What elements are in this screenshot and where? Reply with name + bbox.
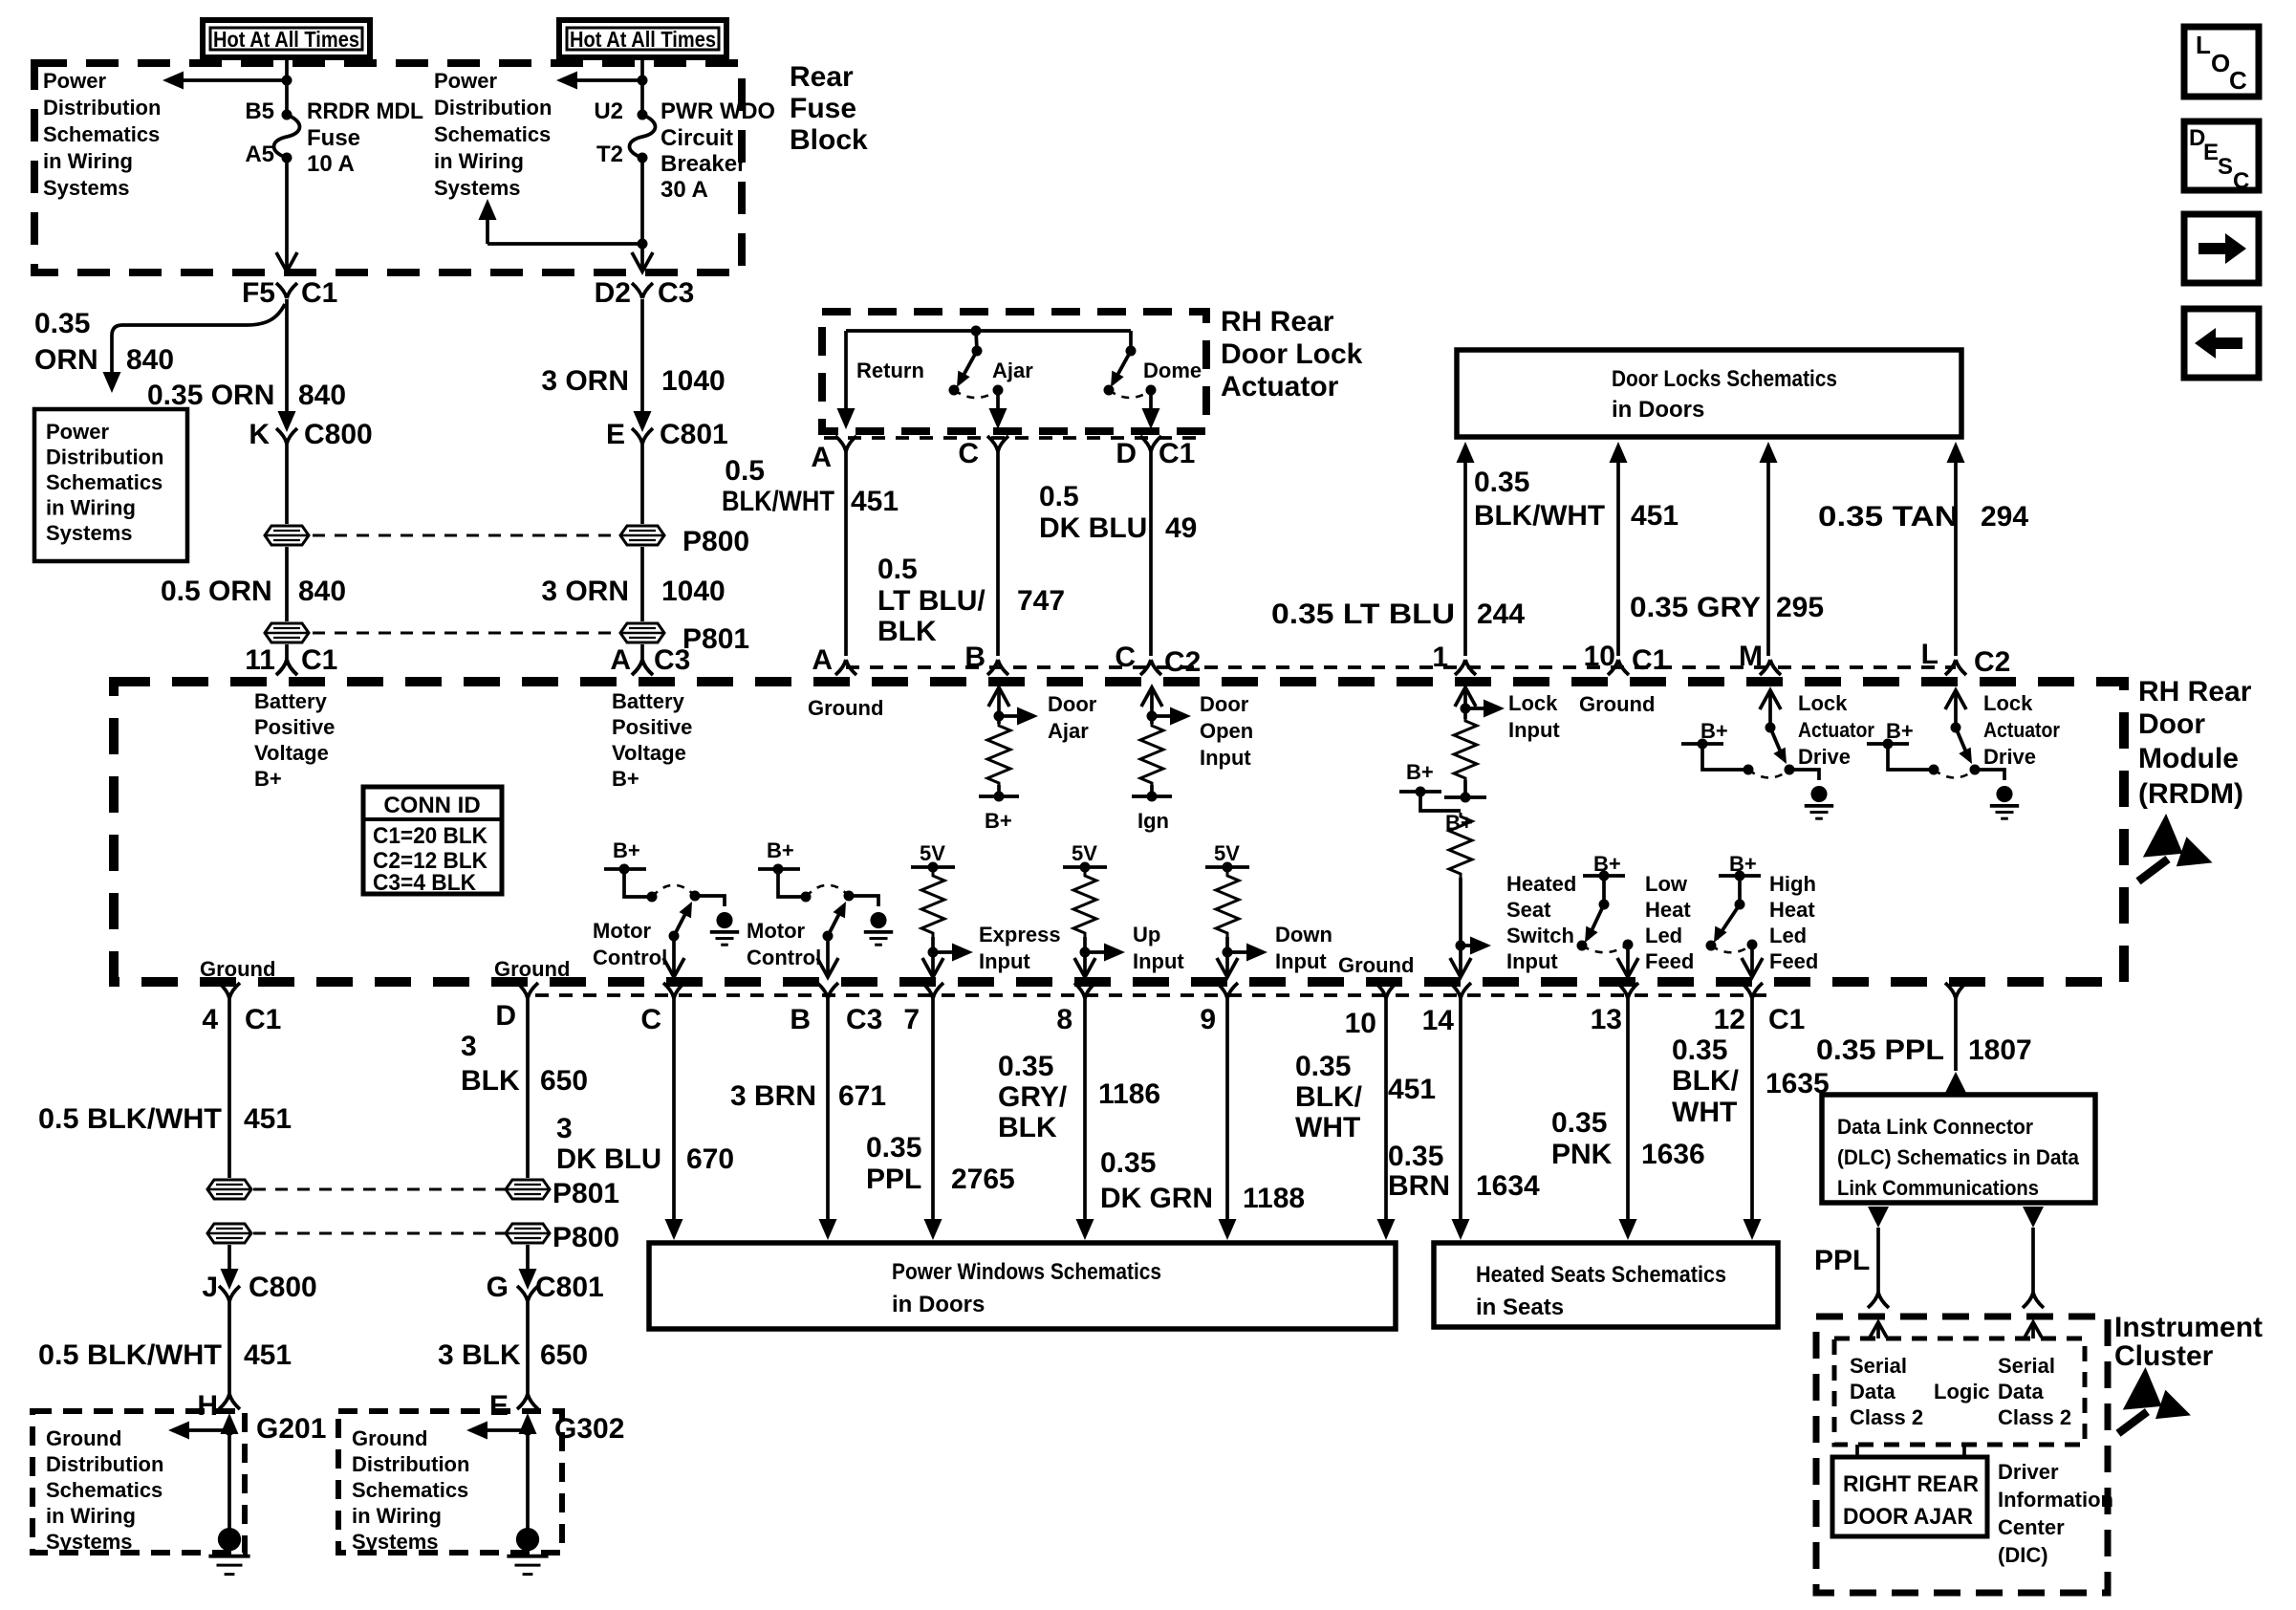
- svg-text:Systems: Systems: [434, 176, 521, 200]
- svg-text:RIGHT REAR: RIGHT REAR: [1843, 1471, 1979, 1497]
- svg-text:10: 10: [1345, 1008, 1376, 1039]
- svg-text:5V: 5V: [1214, 841, 1240, 865]
- svg-text:PPL: PPL: [866, 1164, 921, 1195]
- svg-text:Schematics: Schematics: [43, 122, 160, 146]
- svg-text:Logic: Logic: [1934, 1380, 1990, 1403]
- svg-text:10 A: 10 A: [307, 151, 355, 177]
- svg-text:Drive: Drive: [1798, 745, 1851, 769]
- svg-text:C: C: [958, 438, 979, 469]
- svg-text:in Wiring: in Wiring: [43, 149, 133, 173]
- svg-text:C1: C1: [301, 277, 337, 309]
- svg-text:Drive: Drive: [1983, 745, 2036, 769]
- svg-text:BLK: BLK: [461, 1065, 520, 1097]
- svg-text:DK BLU: DK BLU: [1039, 512, 1147, 544]
- svg-text:C1: C1: [301, 644, 337, 676]
- svg-text:Input: Input: [1133, 949, 1184, 973]
- svg-text:BLK/WHT: BLK/WHT: [722, 486, 834, 517]
- svg-text:P801: P801: [682, 623, 749, 655]
- svg-text:Input: Input: [1275, 949, 1327, 973]
- svg-text:0.35 PPL: 0.35 PPL: [1816, 1034, 1944, 1066]
- svg-text:Dome: Dome: [1143, 359, 1202, 382]
- svg-text:B+: B+: [254, 767, 282, 791]
- svg-text:0.35: 0.35: [998, 1051, 1053, 1082]
- svg-text:0.35: 0.35: [34, 308, 90, 339]
- svg-text:0.35: 0.35: [866, 1132, 921, 1164]
- svg-text:ORN: ORN: [34, 344, 98, 376]
- svg-text:1040: 1040: [661, 365, 726, 397]
- svg-text:Power: Power: [434, 69, 497, 93]
- svg-text:BLK: BLK: [877, 616, 937, 647]
- svg-text:0.35 GRY: 0.35 GRY: [1630, 592, 1761, 623]
- svg-text:Cluster: Cluster: [2114, 1340, 2214, 1372]
- svg-text:BLK/: BLK/: [1672, 1065, 1740, 1097]
- svg-text:Return: Return: [856, 359, 924, 382]
- svg-text:BRN: BRN: [1388, 1170, 1450, 1202]
- svg-text:Class 2: Class 2: [1998, 1405, 2071, 1429]
- svg-text:Door: Door: [2138, 708, 2205, 740]
- svg-text:Heat: Heat: [1769, 898, 1815, 922]
- svg-text:A: A: [811, 442, 832, 473]
- svg-text:12: 12: [1714, 1004, 1745, 1035]
- svg-text:0.35: 0.35: [1388, 1141, 1443, 1172]
- svg-text:in Doors: in Doors: [1612, 397, 1704, 423]
- svg-text:Heated: Heated: [1506, 872, 1576, 896]
- svg-text:M: M: [1739, 641, 1763, 672]
- svg-text:C800: C800: [249, 1272, 317, 1303]
- svg-text:C1: C1: [245, 1004, 281, 1035]
- svg-text:G201: G201: [256, 1413, 326, 1445]
- svg-text:RRDR MDL: RRDR MDL: [307, 98, 423, 124]
- svg-text:Positive: Positive: [254, 715, 335, 739]
- svg-text:Input: Input: [1506, 949, 1558, 973]
- svg-text:Lock: Lock: [1508, 691, 1558, 715]
- svg-text:C801: C801: [535, 1272, 604, 1303]
- svg-text:C3: C3: [654, 644, 690, 676]
- svg-text:0.5 BLK/WHT: 0.5 BLK/WHT: [38, 1103, 222, 1135]
- svg-text:Door Locks Schematics: Door Locks Schematics: [1612, 366, 1837, 392]
- svg-text:Schematics: Schematics: [352, 1478, 468, 1502]
- svg-text:D: D: [1116, 438, 1137, 469]
- svg-text:C1=20 BLK: C1=20 BLK: [373, 823, 488, 849]
- svg-text:3: 3: [556, 1113, 573, 1144]
- svg-text:H: H: [197, 1390, 218, 1422]
- svg-text:Power: Power: [43, 69, 106, 93]
- svg-text:0.5: 0.5: [877, 554, 918, 585]
- svg-text:Ground: Ground: [808, 696, 883, 720]
- svg-text:(DLC) Schematics in Data: (DLC) Schematics in Data: [1837, 1145, 2080, 1169]
- svg-text:Schematics: Schematics: [46, 470, 162, 494]
- svg-text:G302: G302: [554, 1413, 624, 1445]
- svg-text:Circuit: Circuit: [661, 125, 733, 151]
- svg-text:DK GRN: DK GRN: [1100, 1183, 1213, 1214]
- svg-text:Block: Block: [790, 124, 868, 156]
- svg-text:Module: Module: [2138, 743, 2239, 774]
- svg-text:451: 451: [851, 486, 899, 517]
- svg-text:Door: Door: [1200, 692, 1249, 716]
- svg-text:244: 244: [1477, 598, 1525, 630]
- svg-text:451: 451: [1388, 1074, 1436, 1105]
- svg-text:Ground: Ground: [46, 1426, 121, 1450]
- svg-text:Lock: Lock: [1798, 691, 1848, 715]
- svg-text:B+: B+: [613, 838, 640, 862]
- svg-text:1807: 1807: [1968, 1034, 2032, 1066]
- svg-text:WHT: WHT: [1672, 1097, 1737, 1128]
- svg-text:GRY/: GRY/: [998, 1081, 1068, 1113]
- svg-text:Motor: Motor: [593, 919, 652, 943]
- svg-text:0.35: 0.35: [1295, 1051, 1351, 1082]
- svg-text:Seat: Seat: [1506, 898, 1551, 922]
- svg-text:Ign: Ign: [1137, 809, 1169, 833]
- svg-text:3 ORN: 3 ORN: [541, 365, 629, 397]
- svg-text:Systems: Systems: [46, 521, 133, 545]
- svg-text:A: A: [812, 644, 833, 676]
- svg-text:Voltage: Voltage: [254, 741, 329, 765]
- svg-text:P800: P800: [552, 1222, 619, 1253]
- svg-text:DK BLU: DK BLU: [556, 1143, 661, 1175]
- svg-text:in Doors: in Doors: [892, 1292, 985, 1317]
- svg-text:Lock: Lock: [1983, 691, 2033, 715]
- svg-text:D: D: [495, 1000, 516, 1032]
- svg-text:0.35 LT BLU: 0.35 LT BLU: [1271, 598, 1455, 630]
- svg-text:P801: P801: [552, 1178, 619, 1209]
- svg-text:Power: Power: [46, 420, 109, 444]
- svg-text:Positive: Positive: [612, 715, 692, 739]
- svg-text:B+: B+: [612, 767, 639, 791]
- svg-text:C3: C3: [846, 1004, 882, 1035]
- svg-text:30 A: 30 A: [661, 177, 708, 203]
- svg-text:BLK: BLK: [998, 1112, 1057, 1143]
- svg-text:Information: Information: [1998, 1488, 2113, 1512]
- svg-text:650: 650: [540, 1339, 588, 1371]
- svg-text:Low: Low: [1645, 872, 1688, 896]
- svg-text:C: C: [640, 1004, 661, 1035]
- svg-text:in Wiring: in Wiring: [434, 149, 524, 173]
- svg-text:Led: Led: [1769, 924, 1807, 947]
- svg-text:0.5 BLK/WHT: 0.5 BLK/WHT: [38, 1339, 222, 1371]
- svg-text:747: 747: [1017, 585, 1065, 617]
- svg-text:2765: 2765: [951, 1164, 1015, 1195]
- svg-text:Door: Door: [1048, 692, 1097, 716]
- svg-text:Battery: Battery: [612, 689, 685, 713]
- svg-text:RH Rear: RH Rear: [1221, 306, 1334, 337]
- svg-text:3 BRN: 3 BRN: [730, 1080, 816, 1112]
- svg-text:0.35: 0.35: [1474, 467, 1529, 498]
- svg-text:K: K: [249, 419, 270, 450]
- svg-text:Actuator: Actuator: [1983, 718, 2060, 742]
- svg-text:WHT: WHT: [1295, 1112, 1360, 1143]
- svg-text:Heated Seats Schematics: Heated Seats Schematics: [1476, 1262, 1726, 1288]
- svg-text:11: 11: [245, 644, 275, 676]
- svg-text:B+: B+: [1406, 760, 1434, 784]
- svg-text:Hot At All Times: Hot At All Times: [570, 27, 716, 52]
- svg-text:LT BLU/: LT BLU/: [877, 585, 986, 617]
- svg-text:0.5: 0.5: [725, 455, 765, 487]
- svg-text:0.35: 0.35: [1672, 1034, 1727, 1066]
- svg-text:C1: C1: [1159, 438, 1195, 469]
- svg-text:in Seats: in Seats: [1476, 1295, 1564, 1320]
- svg-text:Ground: Ground: [200, 957, 275, 981]
- svg-text:Schematics: Schematics: [46, 1478, 162, 1502]
- svg-text:1636: 1636: [1641, 1139, 1705, 1170]
- svg-text:Ground: Ground: [352, 1426, 427, 1450]
- svg-text:Distribution: Distribution: [46, 446, 163, 469]
- svg-text:Input: Input: [979, 949, 1030, 973]
- svg-text:E: E: [606, 419, 625, 450]
- svg-text:Input: Input: [1508, 718, 1560, 742]
- svg-text:in Wiring: in Wiring: [46, 496, 136, 520]
- svg-text:840: 840: [126, 344, 174, 376]
- svg-text:Express: Express: [979, 923, 1061, 946]
- svg-text:Ground: Ground: [1579, 692, 1655, 716]
- svg-text:CONN ID: CONN ID: [383, 793, 480, 818]
- svg-text:294: 294: [1981, 501, 2028, 533]
- svg-text:L: L: [1921, 639, 1939, 670]
- svg-text:Data: Data: [1850, 1380, 1895, 1403]
- svg-text:Distribution: Distribution: [352, 1452, 469, 1476]
- svg-text:Switch: Switch: [1506, 924, 1574, 947]
- svg-text:B5: B5: [245, 98, 274, 124]
- svg-text:C3: C3: [658, 277, 694, 309]
- svg-text:B: B: [790, 1004, 811, 1035]
- svg-text:B: B: [964, 642, 986, 673]
- svg-text:7: 7: [903, 1004, 920, 1035]
- svg-text:451: 451: [244, 1103, 292, 1135]
- svg-text:C1: C1: [1632, 644, 1668, 676]
- svg-text:1186: 1186: [1098, 1078, 1160, 1110]
- svg-text:3 BLK: 3 BLK: [438, 1339, 521, 1371]
- svg-text:Distribution: Distribution: [46, 1452, 163, 1476]
- svg-text:L: L: [2196, 31, 2211, 59]
- svg-text:Center: Center: [1998, 1515, 2065, 1539]
- svg-text:Rear: Rear: [790, 61, 854, 93]
- svg-text:PNK: PNK: [1551, 1139, 1613, 1170]
- svg-text:1188: 1188: [1243, 1183, 1305, 1214]
- svg-text:A: A: [610, 644, 631, 676]
- svg-text:Hot At All Times: Hot At All Times: [213, 27, 359, 52]
- svg-text:C: C: [2229, 66, 2247, 95]
- svg-text:E: E: [489, 1390, 509, 1422]
- svg-text:Control: Control: [747, 946, 821, 969]
- svg-text:Input: Input: [1200, 746, 1251, 770]
- svg-text:Ground: Ground: [1338, 953, 1414, 977]
- svg-text:1634: 1634: [1476, 1170, 1540, 1202]
- svg-text:Led: Led: [1645, 924, 1682, 947]
- svg-text:Link Communications: Link Communications: [1837, 1176, 2039, 1200]
- svg-text:Power Windows Schematics: Power Windows Schematics: [892, 1259, 1161, 1285]
- svg-text:4: 4: [202, 1004, 218, 1035]
- svg-text:Class 2: Class 2: [1850, 1405, 1923, 1429]
- svg-text:E: E: [2203, 140, 2219, 165]
- svg-text:840: 840: [298, 576, 346, 607]
- svg-text:10: 10: [1584, 641, 1615, 672]
- svg-text:Actuator: Actuator: [1221, 371, 1339, 402]
- svg-text:A5: A5: [245, 141, 274, 167]
- svg-text:Serial: Serial: [1850, 1354, 1907, 1378]
- svg-text:(DIC): (DIC): [1998, 1543, 2048, 1567]
- svg-text:Systems: Systems: [43, 176, 130, 200]
- svg-text:0.5 ORN: 0.5 ORN: [161, 576, 272, 607]
- svg-text:49: 49: [1165, 512, 1197, 544]
- svg-text:Actuator: Actuator: [1798, 718, 1874, 742]
- svg-text:BLK/: BLK/: [1295, 1081, 1363, 1113]
- svg-text:0.35 TAN: 0.35 TAN: [1818, 501, 1959, 533]
- svg-text:3 ORN: 3 ORN: [541, 576, 629, 607]
- svg-text:Distribution: Distribution: [434, 96, 552, 120]
- svg-text:14: 14: [1422, 1005, 1455, 1036]
- svg-text:1: 1: [1432, 642, 1448, 673]
- svg-text:in Wiring: in Wiring: [352, 1504, 442, 1528]
- svg-text:C: C: [1115, 642, 1136, 673]
- svg-text:U2: U2: [594, 98, 623, 124]
- svg-text:Up: Up: [1133, 923, 1160, 946]
- svg-text:O: O: [2211, 49, 2230, 77]
- svg-text:Battery: Battery: [254, 689, 328, 713]
- svg-text:Door Lock: Door Lock: [1221, 338, 1363, 370]
- svg-text:8: 8: [1056, 1004, 1072, 1035]
- svg-text:Breaker: Breaker: [661, 151, 746, 177]
- svg-text:(RRDM): (RRDM): [2138, 778, 2243, 810]
- svg-text:C2: C2: [1974, 646, 2010, 678]
- svg-text:Voltage: Voltage: [612, 741, 686, 765]
- svg-text:Heat: Heat: [1645, 898, 1691, 922]
- svg-text:P800: P800: [682, 526, 749, 557]
- svg-text:0.5: 0.5: [1039, 481, 1079, 512]
- svg-text:in Wiring: in Wiring: [46, 1504, 136, 1528]
- svg-text:0.35: 0.35: [1100, 1147, 1156, 1179]
- svg-text:295: 295: [1776, 592, 1824, 623]
- svg-text:Systems: Systems: [352, 1530, 439, 1554]
- svg-text:840: 840: [298, 380, 346, 411]
- svg-text:BLK/WHT: BLK/WHT: [1474, 500, 1605, 532]
- svg-text:671: 671: [838, 1080, 886, 1112]
- svg-text:670: 670: [686, 1143, 734, 1175]
- svg-text:Instrument: Instrument: [2114, 1312, 2263, 1343]
- svg-text:B+: B+: [985, 809, 1012, 833]
- svg-text:1040: 1040: [661, 576, 726, 607]
- svg-text:C: C: [2233, 168, 2249, 194]
- svg-text:High: High: [1769, 872, 1816, 896]
- svg-text:Distribution: Distribution: [43, 96, 161, 120]
- svg-text:J: J: [202, 1272, 218, 1303]
- svg-text:Fuse: Fuse: [307, 125, 360, 151]
- svg-text:451: 451: [244, 1339, 292, 1371]
- svg-text:Control: Control: [593, 946, 667, 969]
- svg-text:650: 650: [540, 1065, 588, 1097]
- svg-text:G: G: [487, 1272, 509, 1303]
- svg-text:Motor: Motor: [747, 919, 806, 943]
- svg-text:5V: 5V: [1072, 841, 1097, 865]
- svg-text:C2: C2: [1164, 646, 1201, 678]
- svg-text:T2: T2: [596, 141, 623, 167]
- svg-text:Systems: Systems: [46, 1530, 133, 1554]
- svg-text:Feed: Feed: [1645, 949, 1694, 973]
- svg-text:0.35: 0.35: [1551, 1107, 1607, 1139]
- svg-text:D2: D2: [595, 277, 631, 309]
- svg-text:S: S: [2218, 154, 2233, 180]
- svg-text:B+: B+: [767, 838, 794, 862]
- svg-text:Driver: Driver: [1998, 1460, 2059, 1484]
- svg-text:Down: Down: [1275, 923, 1332, 946]
- svg-text:PWR WDO: PWR WDO: [661, 98, 775, 124]
- svg-text:Feed: Feed: [1769, 949, 1818, 973]
- svg-text:13: 13: [1591, 1004, 1622, 1035]
- svg-text:Data: Data: [1998, 1380, 2044, 1403]
- svg-text:9: 9: [1200, 1004, 1216, 1035]
- svg-text:3: 3: [461, 1031, 477, 1062]
- svg-text:F5: F5: [242, 277, 275, 309]
- svg-text:DOOR AJAR: DOOR AJAR: [1843, 1504, 1973, 1530]
- svg-text:Ground: Ground: [494, 957, 570, 981]
- svg-text:Fuse: Fuse: [790, 93, 856, 124]
- svg-text:C1: C1: [1768, 1004, 1805, 1035]
- svg-text:C800: C800: [304, 419, 373, 450]
- svg-text:C3=4 BLK: C3=4 BLK: [373, 870, 477, 896]
- svg-text:C801: C801: [660, 419, 728, 450]
- svg-text:Open: Open: [1200, 719, 1253, 743]
- svg-text:PPL: PPL: [1814, 1245, 1870, 1276]
- svg-text:Schematics: Schematics: [434, 122, 551, 146]
- svg-text:0.35 ORN: 0.35 ORN: [147, 380, 274, 411]
- svg-text:Serial: Serial: [1998, 1354, 2055, 1378]
- svg-text:Data Link Connector: Data Link Connector: [1837, 1115, 2033, 1139]
- svg-text:5V: 5V: [920, 841, 945, 865]
- svg-text:451: 451: [1631, 500, 1679, 532]
- svg-text:RH Rear: RH Rear: [2138, 676, 2252, 707]
- svg-text:Ajar: Ajar: [1048, 719, 1089, 743]
- svg-text:Ajar: Ajar: [992, 359, 1033, 382]
